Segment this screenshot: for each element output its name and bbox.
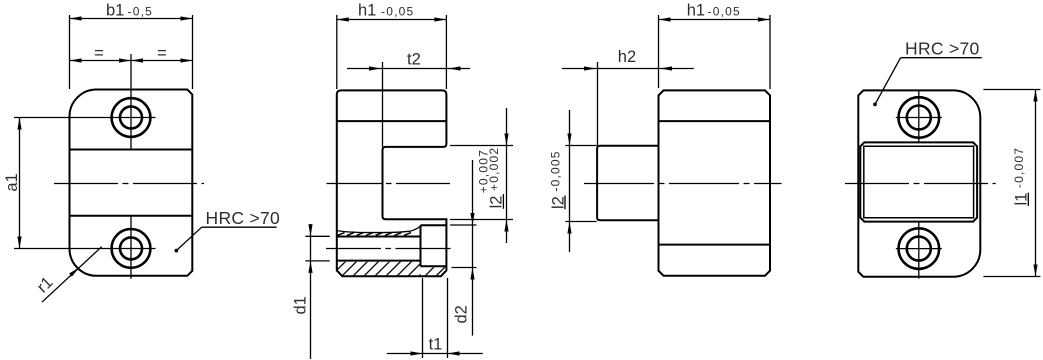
view2 counterbore wall <box>420 225 422 266</box>
svg-text:a1: a1 <box>3 173 21 191</box>
view4 horizontal centerline <box>845 183 996 185</box>
view4 top hole counterbore circle <box>899 97 940 138</box>
view2 hatching lower band <box>325 255 462 282</box>
view3 horizontal centerline <box>584 183 782 185</box>
svg-text:t1: t1 <box>429 335 443 353</box>
view2 horizontal centerline <box>327 183 451 185</box>
dimension t1 line <box>387 353 483 355</box>
HRC note view1 leader dot <box>174 249 178 253</box>
view4 top hole vertical centerline <box>918 90 920 142</box>
dimension equal-spacing arrows <box>70 58 193 62</box>
r1 arrowhead <box>69 267 79 276</box>
view2 hatching sliver above bore <box>338 233 412 236</box>
HRC note view4 underline <box>901 57 982 59</box>
view4 bottom hole counterbore circle <box>899 228 940 269</box>
svg-text:d1: d1 <box>292 296 310 314</box>
view3 main block outline <box>659 90 771 275</box>
svg-text:h2: h2 <box>618 48 636 66</box>
view4 tongue outer outline <box>860 142 977 221</box>
view4 bottom hole horizontal centerline <box>896 248 942 250</box>
view1 part outline <box>70 90 193 276</box>
dimension d1 extension lines <box>305 235 329 237</box>
dimension b1 line <box>70 18 193 20</box>
dimension d2 line <box>472 160 474 336</box>
svg-text:d2: d2 <box>453 305 471 323</box>
dimension t2 arrows <box>369 66 460 70</box>
svg-text:h1: h1 <box>358 1 376 19</box>
view1 top hole vertical centerline <box>130 54 132 150</box>
dimension h1 (view2) line <box>337 19 447 21</box>
dimension h1 (view2) arrows <box>337 17 447 21</box>
dimension h1 (view3) extension lines <box>658 15 660 88</box>
dimension l2 (view2) extension lines <box>450 145 513 147</box>
dimension l1 arrows <box>1033 90 1037 277</box>
dimension d2 extension lines <box>450 224 477 226</box>
dimension l1 line <box>1035 90 1037 277</box>
dimension l2 (view3) arrows <box>567 134 571 234</box>
view4 top hole horizontal centerline <box>896 117 942 119</box>
svg-text:HRC >70: HRC >70 <box>905 39 980 59</box>
svg-text:-0,05: -0,05 <box>381 4 414 18</box>
dimension b1 extension lines <box>69 15 71 89</box>
dimension d1 arrows <box>308 224 312 273</box>
dimension l2 (view3) line <box>569 110 571 252</box>
view4 tongue face inner outline <box>864 146 974 218</box>
dimension h2 line <box>562 68 694 70</box>
view2 step edge line <box>337 120 447 122</box>
dimension l2 (view3) label underline <box>564 196 566 210</box>
dimension l2 (view3) extension lines <box>565 145 596 147</box>
HRC note view1 underline <box>202 226 277 228</box>
view1 bottom hole horizontal centerline / a1 extension <box>14 248 156 250</box>
view1 lower face line <box>70 215 193 217</box>
view2 counterbore top edge <box>421 224 447 226</box>
view1 horizontal centerline <box>54 183 204 185</box>
view2 hatching counterbore band <box>420 256 467 281</box>
svg-text:t2: t2 <box>407 51 421 69</box>
view1 top hole counterbore circle <box>112 98 151 137</box>
dimension h1 (view3) arrows <box>659 17 771 21</box>
view4 part outline <box>858 90 980 276</box>
view1 bottom hole counterbore circle <box>112 229 151 268</box>
dimension h2 arrows <box>584 66 672 70</box>
dimension l2 (view2) label underline <box>502 194 504 209</box>
dimension t2 line <box>347 68 470 70</box>
dimension h2 extension line <box>597 62 599 146</box>
view4 top hole bore circle <box>907 106 931 130</box>
view4 bottom hole bore circle <box>907 237 931 261</box>
dimension d1 line <box>310 224 312 359</box>
dimension equal-spacing line <box>70 60 193 62</box>
dimension l2 (view2) arrows <box>504 134 508 232</box>
view1 top hole bore circle <box>120 107 142 129</box>
view4 bottom hole vertical centerline <box>918 222 920 279</box>
svg-text:-0,05: -0,05 <box>708 4 741 18</box>
HRC note view1 leader <box>176 227 201 250</box>
HRC note view4 leader <box>875 58 901 105</box>
radius leader r1 <box>42 247 102 303</box>
svg-text:b1: b1 <box>106 1 124 19</box>
view3 tongue outline <box>597 146 658 221</box>
view2 break line <box>337 226 421 233</box>
view3 upper step line <box>659 120 771 122</box>
view1 bottom hole vertical centerline <box>130 216 132 279</box>
dimension h1 (view2) extension lines <box>336 15 338 89</box>
dimension t2 extension line <box>382 62 384 147</box>
dimension a1 arrows <box>17 118 21 249</box>
svg-text:=: = <box>157 45 167 63</box>
dimension l1 extension lines <box>983 89 1040 91</box>
dimension a1 line <box>19 118 21 249</box>
dimension l1 label underline <box>1027 193 1029 206</box>
dimension d2 arrows <box>470 213 474 280</box>
view2 bore bottom edge <box>337 260 421 262</box>
view2 hole centerline <box>326 248 454 250</box>
HRC note view4 leader dot <box>873 103 877 107</box>
dimension t1 arrows <box>411 351 460 355</box>
view2 part outline <box>337 90 447 276</box>
dimension b1 arrows <box>70 16 193 20</box>
view3 lower step line <box>659 244 771 246</box>
svg-text:-0,5: -0,5 <box>128 4 153 18</box>
view2 bore top edge <box>337 236 421 238</box>
view1 upper face line <box>70 149 193 151</box>
view1 top hole horizontal centerline / a1 extension <box>14 117 156 119</box>
dimension h1 (view3) line <box>659 19 771 21</box>
dimension t1 extension lines <box>422 278 424 358</box>
view1 bottom hole bore circle <box>120 237 142 259</box>
dimension l2 (view2) line <box>506 108 508 243</box>
view2 counterbore bottom edge <box>421 265 447 267</box>
svg-text:HRC >70: HRC >70 <box>206 208 281 228</box>
svg-text:=: = <box>94 45 104 63</box>
svg-text:h1: h1 <box>687 1 705 19</box>
